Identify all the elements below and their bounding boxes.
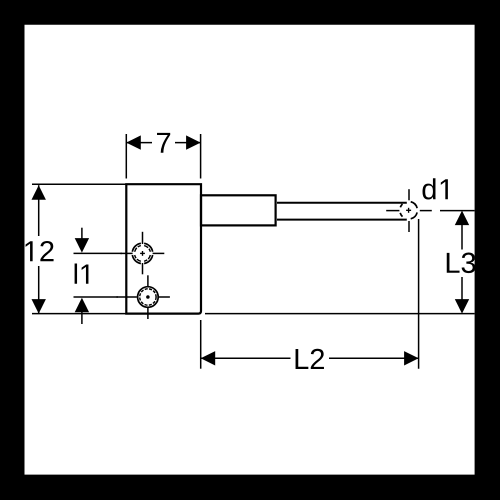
pipe end circle d1 [400, 202, 417, 219]
dimension L3 line [461, 222, 463, 301]
pipe end center mark [406, 208, 411, 213]
dimension L3 arrow up [455, 211, 469, 226]
dimension l1 extension line bottom [74, 296, 119, 298]
fitting body [126, 184, 201, 313]
dimension L2 line [201, 357, 419, 359]
dimension l1 text [75, 264, 89, 284]
dimension L3 extension line bottom [205, 313, 475, 315]
label d1 [423, 178, 448, 199]
pipe end centerline ticks [386, 189, 432, 232]
dimension 12 extension line top [32, 183, 126, 185]
mounting hole H2 inner circle [140, 289, 156, 305]
dimension L3 extension line top [440, 210, 475, 212]
dimension 12 line [38, 185, 40, 313]
mounting hole H2 centerline ticks [116, 275, 169, 319]
mounting hole H1 centerline ticks [120, 232, 164, 274]
dimension L2 text [296, 349, 324, 369]
mounting hole H1 outer circle [132, 243, 152, 263]
dimension 12 arrow up [32, 185, 46, 200]
dimension 7 arrow left [126, 135, 141, 149]
dimension 7 extension line right [200, 134, 202, 179]
dimension L3 text [447, 253, 476, 274]
mounting hole H1 center mark [140, 251, 145, 256]
thin pipe top line [277, 202, 407, 204]
dimension l1 upper arrow [75, 228, 89, 253]
socket pipe [201, 195, 276, 225]
mounting hole H2 outer circle [138, 287, 159, 308]
dimension L2 extension line right [418, 219, 420, 369]
dimension 7 extension line left [125, 134, 127, 179]
mounting hole H1 inner circle [135, 246, 151, 262]
dimension L2 extension line left [200, 320, 202, 369]
dimension 12 extension line bottom [32, 313, 126, 315]
thin pipe bottom line [277, 219, 407, 221]
dimension 12 arrow down [32, 299, 46, 314]
dimension 7 arrow right [186, 135, 201, 149]
dimension 7 text [157, 133, 170, 153]
dimension L3 arrow down [455, 299, 469, 314]
mounting hole H2 center dot [146, 295, 150, 299]
dimension L2 arrow left [201, 351, 216, 365]
dimension l1 extension line top [74, 252, 123, 254]
dimension 12 text [26, 241, 54, 261]
dimension l1 lower arrow [75, 298, 89, 324]
dimension 7 line [126, 142, 200, 144]
dimension L2 arrow right [404, 351, 419, 365]
